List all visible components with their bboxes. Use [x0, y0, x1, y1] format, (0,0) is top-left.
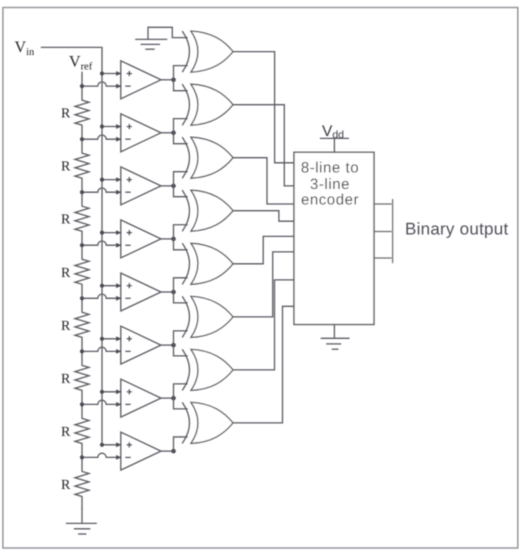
resistor R8 — [61, 459, 89, 508]
wire U3 output to XOR3 lower input — [174, 172, 188, 186]
node bus junction 2 — [100, 124, 104, 128]
XOR gate G7 — [183, 349, 233, 390]
node ladder tap 5 — [80, 296, 84, 300]
resistor R3 — [61, 194, 89, 243]
node ladder tap 8 — [80, 455, 84, 459]
wire bus junction to comparator U7 + input — [102, 391, 121, 393]
wire bus junction to comparator U8 + input — [102, 444, 121, 446]
node comparator U4 output junction — [171, 237, 176, 242]
wire tap 8 to comparator U8 - input (hop over bus) — [82, 453, 121, 457]
wire U1 output to XOR2 upper input — [174, 80, 188, 91]
svg-text:R: R — [61, 213, 71, 228]
wire bus junction to comparator U6 + input — [102, 338, 121, 340]
wire U7 output to XOR7 lower input — [174, 384, 188, 398]
wire XOR4 output to encoder input 4 — [233, 211, 294, 222]
node ladder tap 3 — [80, 190, 84, 194]
ground ladder bottom — [67, 523, 97, 534]
wire comparator U2 output — [161, 132, 174, 134]
svg-text:Vin: Vin — [15, 39, 35, 58]
svg-text:Binary output: Binary output — [405, 220, 508, 239]
wire comparator U5 output — [161, 291, 174, 293]
comparator U8 — [116, 432, 161, 470]
wire bus junction to comparator U4 + input — [102, 232, 121, 234]
wire U8 output to XOR8 lower input — [174, 437, 188, 451]
wire encoder to ground — [333, 325, 335, 338]
node comparator U3 output junction — [171, 184, 176, 189]
XOR gate G8 — [183, 402, 233, 443]
wire U3 output to XOR4 upper input — [174, 186, 188, 197]
svg-text:3-line: 3-line — [310, 176, 350, 193]
node bus junction 5 — [100, 284, 104, 288]
node ladder tap 7 — [80, 402, 84, 406]
wire comparator U1 output — [161, 79, 174, 81]
wire XOR8 output to encoder input 8 — [233, 306, 294, 423]
comparator U5 — [116, 273, 161, 311]
wire Vdd to encoder — [333, 138, 335, 152]
node comparator U8 output junction — [171, 449, 176, 454]
wire tap 7 to comparator U7 - input (hop over bus) — [82, 400, 121, 404]
power Vdd label — [321, 123, 349, 141]
XOR gate G6 — [183, 296, 233, 337]
wire U5 output to XOR5 lower input — [174, 278, 188, 292]
wire U7 output to XOR8 upper input — [174, 398, 188, 409]
wire comparator U4 output — [161, 238, 174, 240]
wire bus junction to comparator U1 + input — [102, 73, 121, 75]
comparator U2 — [116, 114, 161, 152]
svg-text:R: R — [61, 372, 71, 387]
node bus junction 4 — [100, 231, 104, 235]
wire ground jumper to XOR1 upper input — [148, 27, 187, 39]
wire comparator U8 output — [161, 450, 174, 452]
node Vref label — [69, 54, 93, 73]
wire ladder top (Vref node) — [81, 72, 83, 86]
XOR gate G2 — [183, 84, 233, 125]
wire U6 output to XOR6 lower input — [174, 331, 188, 345]
wire U6 output to XOR7 upper input — [174, 345, 188, 356]
wire bus junction to comparator U3 + input — [102, 179, 121, 181]
node bus junction 8 — [100, 443, 104, 447]
node comparator U5 output junction — [171, 290, 176, 295]
svg-text:8-line to: 8-line to — [301, 159, 359, 176]
wire U2 output to XOR3 upper input — [174, 133, 188, 144]
wire U5 output to XOR6 upper input — [174, 292, 188, 303]
wire tap 5 to comparator U5 - input (hop over bus) — [82, 294, 121, 298]
svg-text:R: R — [61, 107, 71, 122]
wire tap 6 to comparator U6 - input (hop over bus) — [82, 347, 121, 351]
XOR gate G1 — [183, 31, 233, 72]
XOR gate G5 — [183, 243, 233, 284]
resistor R7 — [61, 406, 89, 455]
ground encoder — [321, 338, 349, 349]
wire U4 output to XOR4 lower input — [174, 225, 188, 239]
node bus junction 6 — [100, 337, 104, 341]
wire U2 output to XOR2 lower input — [174, 119, 188, 133]
wire bus junction to comparator U5 + input — [102, 285, 121, 287]
wire XOR3 output to encoder input 3 — [233, 158, 294, 204]
wire tap 4 to comparator U4 - input (hop over bus) — [82, 241, 121, 245]
ground at XOR1 input — [136, 39, 167, 49]
node bus junction 7 — [100, 390, 104, 394]
node ladder tap 6 — [80, 349, 84, 353]
node bus junction 3 — [100, 178, 104, 182]
comparator U1 — [116, 61, 161, 99]
wire XOR7 output to encoder input 7 — [233, 280, 294, 370]
wire binary output brace — [392, 200, 394, 263]
wire tap 1 to comparator U1 - input (hop over bus) — [82, 82, 121, 86]
resistor R5 — [61, 300, 89, 349]
comparator U7 — [116, 379, 161, 417]
wire comparator U7 output — [161, 397, 174, 399]
node comparator U2 output junction — [171, 131, 176, 136]
svg-text:Vref: Vref — [69, 54, 93, 73]
resistor R6 — [61, 353, 89, 402]
wire XOR6 output to encoder input 6 — [233, 252, 294, 317]
wire comparator U6 output — [161, 344, 174, 346]
wire tap 2 to comparator U2 - input (hop over bus) — [82, 135, 121, 139]
wire tap 3 to comparator U3 - input (hop over bus) — [82, 188, 121, 192]
node comparator U7 output junction — [171, 396, 176, 401]
node Vin label — [15, 39, 35, 58]
wire XOR1 output to encoder input 1 — [233, 52, 294, 163]
node ladder tap 1 — [80, 84, 84, 88]
node bus junction 1 — [100, 71, 104, 75]
resistor R1 — [61, 88, 89, 137]
wire encoder output bit 2 — [374, 257, 391, 259]
comparator U3 — [116, 167, 161, 205]
resistor R4 — [61, 247, 89, 296]
svg-text:encoder: encoder — [301, 192, 359, 209]
node comparator U1 output junction — [171, 78, 176, 83]
svg-text:R: R — [61, 425, 71, 440]
wire Vin to bus — [42, 47, 103, 444]
wire encoder output bit 1 — [374, 231, 391, 233]
XOR gate G4 — [183, 190, 233, 231]
comparator U6 — [116, 326, 161, 364]
wire U4 output to XOR5 upper input — [174, 239, 188, 250]
wire bus junction to comparator U2 + input — [102, 126, 121, 128]
comparator U4 — [116, 220, 161, 258]
resistor R2 — [61, 141, 89, 190]
wire XOR2 output to encoder input 2 — [233, 105, 294, 186]
wire comparator U3 output — [161, 185, 174, 187]
XOR gate G3 — [183, 137, 233, 178]
node ladder tap 2 — [80, 137, 84, 141]
node ladder tap 4 — [80, 243, 84, 247]
wire XOR5 output to encoder input 5 — [233, 236, 294, 263]
svg-text:R: R — [61, 478, 71, 493]
wire ladder bottom to ground — [81, 509, 83, 523]
svg-text:R: R — [61, 319, 71, 334]
encoder U9 8-line to 3-line — [294, 152, 374, 324]
wire encoder output bit 0 — [374, 203, 391, 205]
wire U1 output to XOR1 lower input — [174, 66, 188, 80]
svg-text:R: R — [61, 160, 71, 175]
svg-text:R: R — [61, 266, 71, 281]
node comparator U6 output junction — [171, 343, 176, 348]
